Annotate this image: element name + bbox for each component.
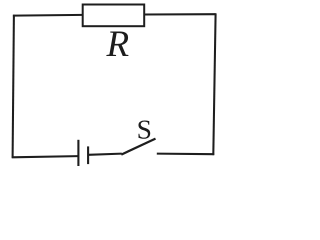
wire right vertical [213, 13, 215, 155]
wire bottom-right segment [157, 153, 214, 156]
wire top-left segment [13, 14, 84, 17]
battery cell: long plate [77, 140, 79, 166]
wire left vertical [13, 15, 14, 158]
svg-text:R: R [106, 24, 130, 65]
wire top-right segment [143, 13, 216, 15]
svg-text:S: S [137, 114, 152, 145]
resistor R [83, 5, 145, 66]
switch S lever [121, 139, 155, 155]
wire battery-to-switch segment [89, 154, 122, 155]
battery cell: short plate [87, 146, 89, 164]
wire bottom-left segment [12, 156, 78, 157]
